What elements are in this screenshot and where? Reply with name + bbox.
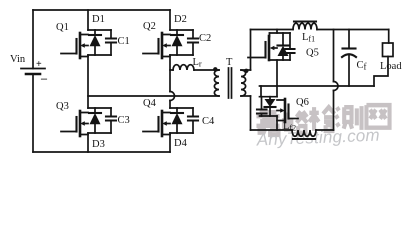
wire hop: Vout+ joining wire crosses Vout- wire without connection [334,82,339,91]
wire Q1 cell box bars [88,30,111,55]
battery Vin [21,69,45,75]
wire Load top lead [388,30,390,44]
watermark char 3 (jian) [309,107,334,131]
capacitor C3 [106,108,116,133]
transformer T dot (primary polarity) [213,67,217,71]
svg-text:C2: C2 [199,33,211,44]
wire Q6 to bottom rail [276,116,278,130]
wire bottom rail (to Q3,Q4 sources) [33,151,170,153]
inductor Lf1 [293,23,317,29]
wire node B to Lr [170,69,173,71]
wire Load bottom jog to Vout- [374,57,388,87]
wire Q1 drain connection [87,10,89,30]
diode D4 [171,108,183,133]
inductor Lr [173,65,194,70]
capacitor Cf (polarized) [342,49,356,87]
svg-text:D4: D4 [174,138,188,149]
wire leg B upper (Q2 source to Lr tap), node B [169,55,171,92]
svg-text:Q3: Q3 [56,101,69,112]
wire joining vertical lower part to bottom rail [333,91,335,131]
wire Q5 source down through Vout- node to Q6 [276,60,278,97]
svg-text:Q1: Q1 [56,22,69,33]
transistor Q6 (MOSFET, mirrored) [277,99,298,122]
svg-text:+: + [36,59,42,70]
svg-text:Lf1: Lf1 [302,32,315,44]
wire hop: leg B crosses node-A wire without connection [170,92,175,101]
capacitor C2 [188,30,198,55]
wire Q3 source to bottom rail [87,133,89,152]
svg-text:D3: D3 [92,139,105,150]
wire Cf top lead [348,30,350,49]
svg-text:Load: Load [380,61,402,72]
wire secondary bottom rail right segment [316,129,334,131]
svg-text:Cf: Cf [357,60,367,72]
diode D1 [89,30,101,55]
wire Lr to transformer primary top [194,69,219,71]
capacitor C1 [106,30,116,55]
wire Q6 cell box bars [260,97,278,116]
transformer T dot (secondary polarity) [244,69,248,73]
wire secondary bottom rail left segment (to Lf2) [251,129,293,131]
svg-text:Q4: Q4 [143,98,157,109]
wire node A to transformer primary bottom [88,95,219,97]
capacitor of Q6 [257,97,267,116]
svg-text:T: T [226,57,233,68]
transformer T core [229,68,232,98]
diode D3 [89,108,101,133]
wire leg B lower (to Q4 drain) [169,101,171,109]
wire Q2 cell box bars [170,30,193,55]
watermark char 2 (yu) [284,111,307,132]
svg-text:Lr: Lr [193,57,202,69]
transformer T primary winding [214,70,219,96]
transistor Q4 (MOSFET) [143,111,170,136]
capacitor C4 [188,108,198,133]
svg-text:Q5: Q5 [306,48,319,59]
transistor Q3 (MOSFET) [61,111,88,136]
wire leg A midpoint (Q1 source to Q3 drain), node A [87,55,89,108]
transistor Q2 (MOSFET) [143,33,170,58]
wire secondary left rail upper (winding top to top rail) [250,30,252,71]
wire left rail upper (Vin+) [32,10,34,69]
transistor Q5 (MOSFET) [248,33,277,60]
wire Q3 cell box bars [88,108,111,133]
wire secondary top rail right segment (Vout+) [317,29,389,31]
svg-text:C1: C1 [118,36,130,47]
svg-text:D1: D1 [92,14,105,25]
svg-text:Q2: Q2 [143,21,156,32]
transistor Q1 (MOSFET) [61,33,88,58]
svg-text:D2: D2 [174,14,187,25]
wire Q4 cell box bars [170,108,193,133]
wire Vout- horizontal (Q5/Q6 common node to Cf/Load bottoms) [260,85,375,87]
wire Q5 drain from top rail [276,30,278,34]
diode of Q5 (body diode) [278,33,289,60]
svg-text:–: – [40,71,48,85]
diode of Q6 (body diode, pointing down) [265,97,276,116]
wire Q4 source to bottom rail [169,133,171,152]
diode D2 [171,30,183,55]
watermark char 4 (ce) [336,106,362,130]
watermark char 1 (jia) [256,110,279,135]
inductor Lf2 core bar [293,138,315,140]
wire left rail lower (Vin-) [32,74,34,152]
watermark char 5 (wang) [366,105,389,128]
wire secondary top rail left segment (to Lf1) [251,29,294,31]
capacitor of Q5 [286,33,295,60]
wire secondary top to left rail [241,69,251,71]
resistor Load (box) [383,43,394,57]
svg-text:Q6: Q6 [296,97,309,108]
wire joining vertical (Lf1/Lf2 outputs, Vout+), upper part [333,30,335,82]
transformer T secondary winding [241,70,246,96]
wire Q5 cell box bars [270,33,291,60]
inductor Lf2 [292,130,316,136]
svg-text:C4: C4 [202,116,215,127]
wire Q2 drain connection [169,10,171,30]
svg-text:C3: C3 [118,115,130,126]
svg-text:Vin: Vin [10,54,26,65]
inductor Lf1 core bar [294,20,316,22]
wire secondary bottom to left rail [241,95,251,97]
wire secondary left rail lower (winding bottom to bottom rail) [250,96,252,130]
wire Q6 box left to Vout- [260,86,262,97]
wire top rail (Vin+ to Q1,Q2 drains) [33,9,170,11]
